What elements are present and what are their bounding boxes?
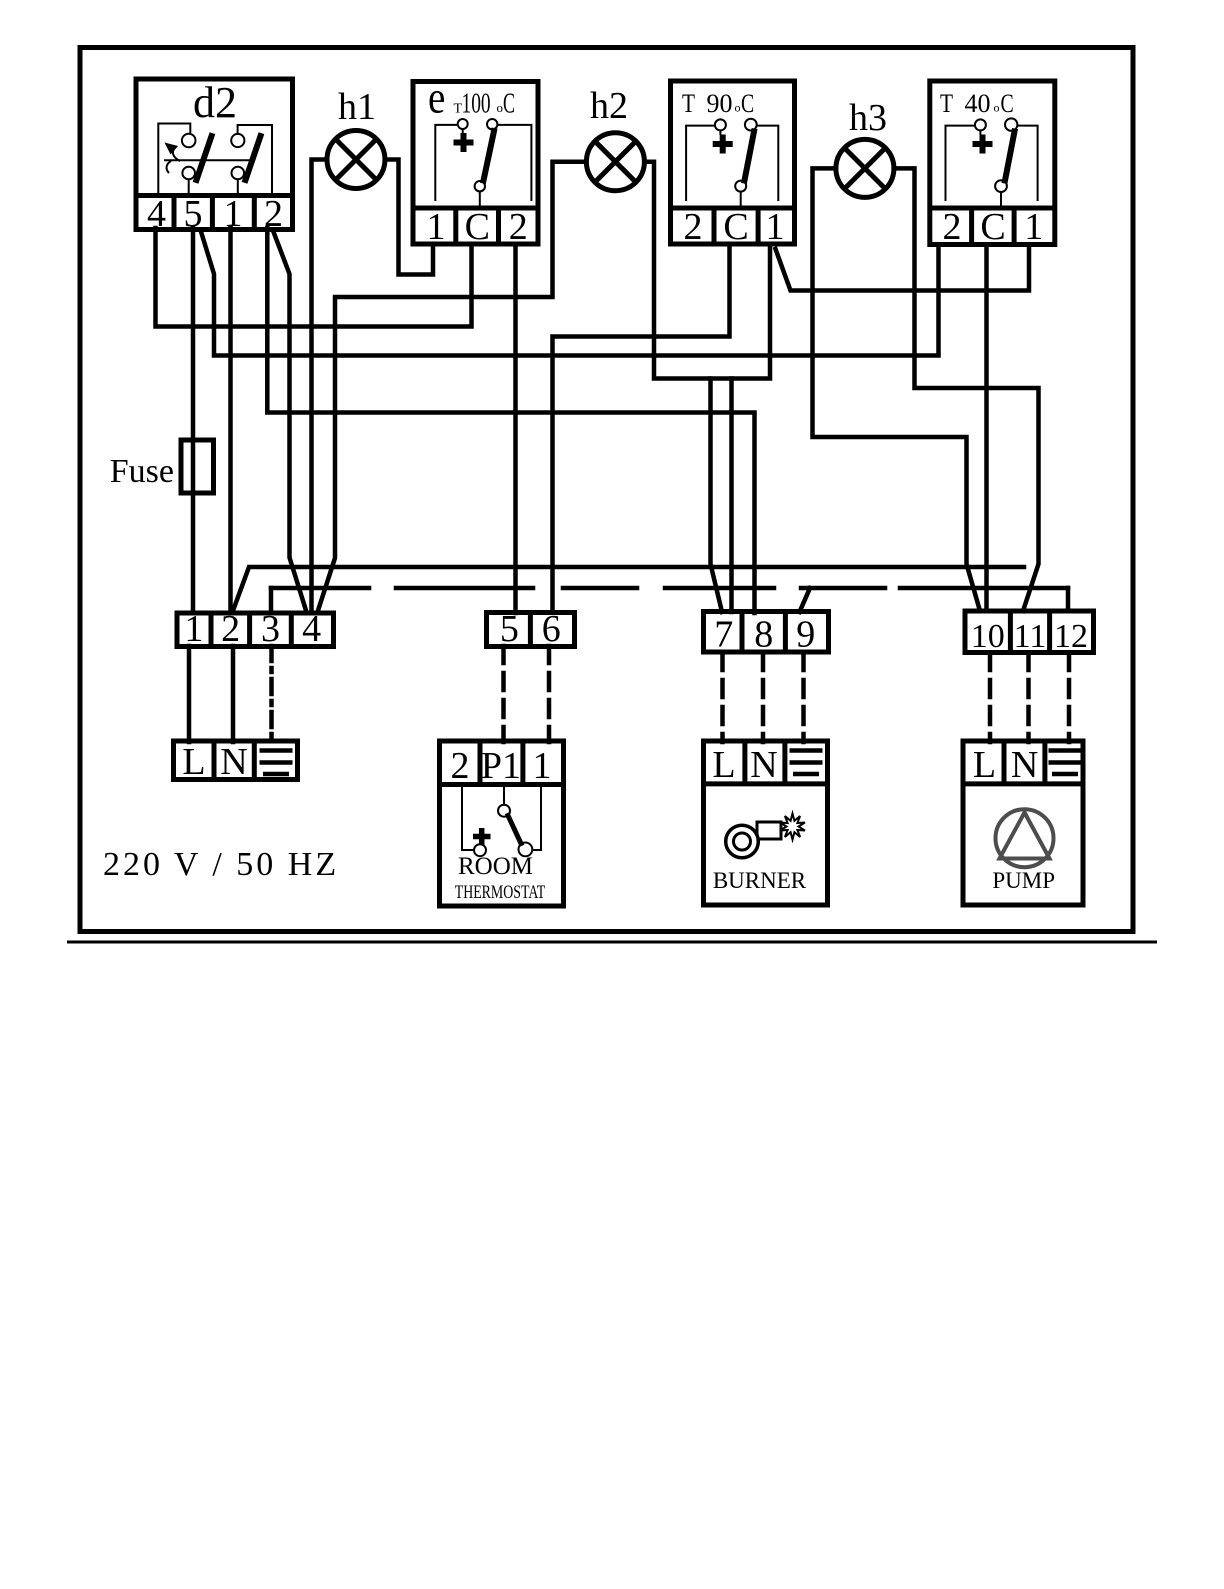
- svg-text:THERMOSTAT: THERMOSTAT: [455, 881, 546, 903]
- svg-text:2: 2: [684, 206, 703, 248]
- wire h3 right to strip 11: [894, 168, 1039, 611]
- svg-text:5: 5: [500, 608, 519, 650]
- thermostat T40 C: [930, 81, 1055, 248]
- terminal strip 10-12: [965, 611, 1094, 655]
- svg-text:1: 1: [766, 206, 785, 248]
- wire T90-1 slant to T40-1: [776, 245, 1030, 291]
- wire strip 11 to pump N: [1026, 653, 1031, 742]
- terminal strip 1-4: [177, 608, 334, 650]
- wire d2-5 through fuse to strip 1: [191, 228, 196, 613]
- wire d2-2 slant to strip 4: [273, 230, 307, 612]
- svg-text:220 V / 50 HZ: 220 V / 50 HZ: [103, 846, 339, 883]
- svg-text:7: 7: [714, 614, 733, 656]
- switch d2: [136, 78, 293, 235]
- lamp h1: [327, 86, 385, 189]
- svg-text:PUMP: PUMP: [992, 868, 1055, 893]
- svg-text:100: 100: [462, 88, 491, 120]
- svg-text:3: 3: [261, 608, 280, 650]
- wire e-2 to strip 5: [513, 245, 518, 613]
- pump: [963, 741, 1083, 905]
- svg-text:P1: P1: [481, 745, 521, 787]
- svg-text:e: e: [428, 73, 445, 124]
- wire strip 7 to burner L: [720, 653, 725, 742]
- fuse: [110, 440, 214, 493]
- wire h3 left to strip 10: [813, 168, 981, 611]
- wire T90-1 node straight to strip 7: [729, 379, 734, 613]
- lamp h3: [836, 97, 894, 197]
- wire strip 9 to burner earth: [801, 653, 806, 742]
- svg-text:11: 11: [1014, 618, 1047, 655]
- wire d2-4 to e-C: [156, 228, 472, 327]
- svg-text:d2: d2: [193, 78, 237, 127]
- svg-text:T: T: [682, 90, 695, 118]
- svg-text:o: o: [735, 101, 741, 115]
- wire strip 6 to thermostat 1: [547, 646, 552, 742]
- wire strip 5 to thermostat P1: [501, 646, 506, 742]
- svg-text:12: 12: [1054, 618, 1088, 655]
- svg-text:90: 90: [707, 89, 733, 118]
- burner: [704, 741, 828, 905]
- svg-text:2: 2: [509, 206, 528, 248]
- svg-text:1: 1: [184, 608, 203, 650]
- wire d2-5 slant to T40-2 bus: [201, 230, 939, 356]
- svg-text:C: C: [723, 206, 748, 248]
- wire strip 10 to pump L: [988, 653, 993, 742]
- lamp h2: [586, 85, 644, 191]
- pump icon: [996, 809, 1054, 867]
- svg-text:C: C: [503, 88, 515, 119]
- svg-text:8: 8: [754, 614, 773, 656]
- wire T90-1 node slant to strip 7: [711, 379, 723, 613]
- terminal strip 7-9: [704, 612, 829, 656]
- burner icon: [757, 822, 781, 839]
- svg-text:1: 1: [224, 193, 243, 235]
- svg-text:2: 2: [451, 745, 470, 787]
- earth bus drop to strip 12: [1066, 588, 1071, 611]
- svg-text:40: 40: [965, 89, 991, 118]
- wire strip 2 to strip 11 bus: [233, 567, 1025, 612]
- svg-text:N: N: [750, 744, 777, 786]
- thermostat T90 C: [671, 81, 795, 248]
- room thermostat: [440, 741, 564, 906]
- svg-text:L: L: [182, 741, 205, 783]
- earth bus slant to strip 9: [800, 588, 811, 612]
- svg-text:C: C: [1001, 88, 1014, 117]
- svg-text:BURNER: BURNER: [713, 868, 807, 893]
- svg-text:1: 1: [533, 745, 552, 787]
- svg-text:N: N: [1011, 744, 1038, 786]
- wire strip 2 to mains N: [231, 646, 236, 742]
- svg-text:1: 1: [427, 206, 446, 248]
- thermostat e T100 C: [413, 73, 538, 248]
- mains connector L N earth: [174, 741, 298, 783]
- svg-text:2: 2: [221, 608, 240, 650]
- terminal strip 5-6: [487, 608, 575, 650]
- wire h2 left to strip 4: [318, 162, 587, 612]
- wire strip 8 to burner N: [761, 653, 766, 742]
- svg-text:10: 10: [971, 618, 1005, 655]
- svg-text:L: L: [973, 744, 996, 786]
- svg-text:o: o: [994, 101, 1000, 115]
- earth bus stub from strip 3: [269, 588, 274, 612]
- svg-text:h3: h3: [849, 97, 887, 139]
- svg-text:9: 9: [796, 614, 815, 656]
- svg-text:4: 4: [147, 193, 166, 235]
- wire h2 right to T90-1: [645, 162, 770, 379]
- svg-text:ROOM: ROOM: [458, 853, 533, 880]
- svg-text:5: 5: [184, 193, 203, 235]
- svg-text:Fuse: Fuse: [110, 453, 174, 490]
- svg-text:2: 2: [264, 193, 283, 235]
- svg-text:1: 1: [1024, 206, 1043, 248]
- wire h1 right to e-1: [385, 160, 433, 275]
- wire strip 12 to pump earth: [1067, 653, 1072, 742]
- wire strip 1 to mains L: [187, 646, 192, 742]
- svg-text:h1: h1: [338, 86, 376, 128]
- svg-text:C: C: [465, 206, 490, 248]
- border frame: [80, 48, 1133, 932]
- wire h1 left to strip 4: [312, 160, 328, 613]
- svg-text:h2: h2: [590, 85, 628, 127]
- wire d2-1 to strip 2: [228, 228, 233, 613]
- wire T40-C to strip 10: [984, 245, 989, 611]
- svg-text:o: o: [497, 100, 504, 115]
- wire d2-2 to strip 8: [267, 228, 754, 613]
- svg-text:N: N: [220, 741, 247, 783]
- svg-text:C: C: [741, 88, 754, 117]
- wire strip 3 to mains earth dash-dot: [269, 646, 274, 742]
- svg-text:T: T: [940, 90, 953, 118]
- svg-text:C: C: [980, 206, 1005, 248]
- svg-text:4: 4: [302, 608, 321, 650]
- svg-text:2: 2: [943, 206, 962, 248]
- svg-text:L: L: [712, 744, 735, 786]
- wire T90-C to strip 6: [553, 245, 730, 612]
- svg-text:6: 6: [542, 608, 561, 650]
- earth bus dashed line: [271, 586, 1068, 591]
